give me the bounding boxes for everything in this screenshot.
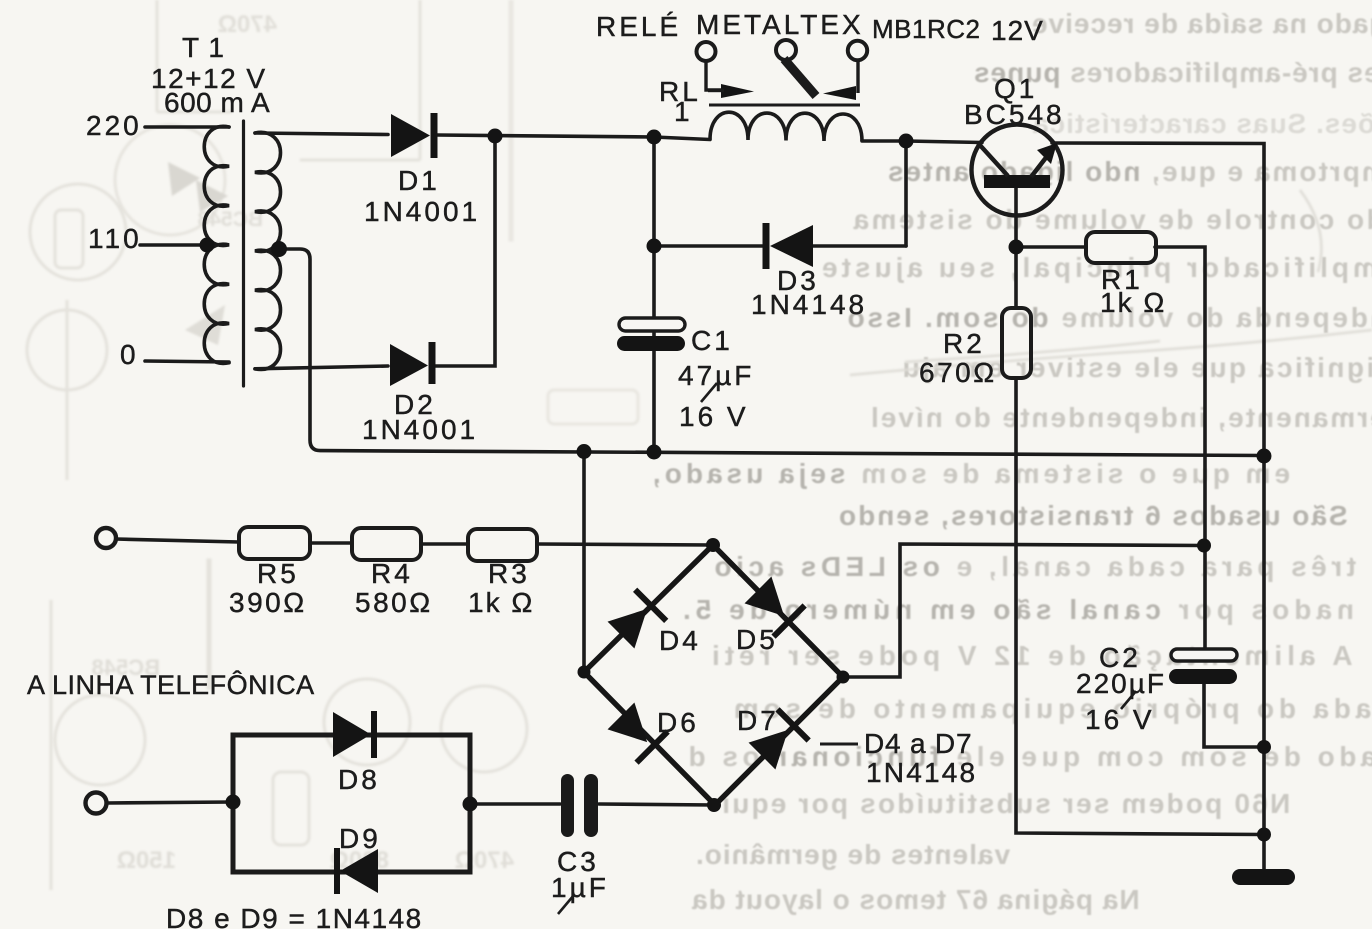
svg-text:1N4148: 1N4148: [866, 757, 977, 788]
svg-text:RELÉ: RELÉ: [596, 11, 681, 42]
node loop left: [226, 795, 241, 810]
wire R2 bottom to right rail: [1016, 378, 1264, 835]
node Q1 base: [1009, 240, 1024, 255]
relay coil: [710, 112, 862, 141]
svg-text:110: 110: [88, 223, 142, 254]
svg-text:R2: R2: [943, 328, 985, 359]
svg-text:0: 0: [120, 339, 139, 370]
node bridge output: [1197, 539, 1211, 553]
svg-text:D4 a D7: D4 a D7: [864, 728, 972, 759]
node D3 left: [647, 239, 662, 254]
relay contact circle 1: [697, 42, 716, 61]
svg-text:1N4148: 1N4148: [751, 289, 867, 320]
node center tap: [271, 241, 287, 257]
svg-text:D7: D7: [737, 705, 779, 736]
node bus C1: [647, 445, 662, 460]
svg-text:D8 e D9 = 1N4148: D8 e D9 = 1N4148: [166, 903, 423, 929]
secondary coil: [255, 132, 281, 369]
wire relay right node down to D3: [904, 141, 908, 246]
node loop right: [463, 797, 478, 812]
relay contact circle 2: [776, 40, 796, 60]
relay contact circle 3: [848, 41, 867, 60]
diode D4: [605, 590, 666, 651]
node bridge left: [578, 666, 591, 679]
svg-text:T 1: T 1: [182, 32, 225, 63]
relay arrow left head: [823, 86, 856, 100]
capacitor C3: [561, 774, 598, 837]
ghost bleed-through text layer: [1031, 8, 1372, 40]
diode D7: [746, 709, 808, 771]
wire Q1 emitter to right rail: [1052, 143, 1264, 456]
wire bridge + output: [843, 544, 1205, 677]
diode D8: [333, 712, 371, 757]
Q1 base bar: [984, 175, 1050, 188]
mu slash C2: [1121, 691, 1136, 709]
diode D3: [766, 223, 813, 269]
svg-text:1: 1: [674, 96, 693, 127]
svg-text:D6: D6: [657, 707, 699, 738]
wire R1 to right vertical: [1155, 247, 1205, 649]
wire bus to bridge left vertex: [582, 452, 586, 672]
svg-text:METALTEX: METALTEX: [696, 9, 864, 40]
node bus left: [577, 444, 592, 459]
wire 110 tap: [140, 243, 207, 247]
wire D2 cathode up to node: [433, 136, 495, 366]
node bridge right: [837, 671, 850, 684]
wire telephone input to R5: [116, 539, 239, 542]
svg-text:580Ω: 580Ω: [355, 587, 433, 618]
node R2 return: [1257, 828, 1271, 842]
wire R5 to R4: [310, 541, 352, 545]
wire C2 bottom: [1204, 684, 1264, 747]
svg-text:1µF: 1µF: [551, 872, 609, 903]
node left rail top: [647, 130, 662, 145]
capacitor C1: [617, 318, 685, 351]
bridge rectifier D4-D7: [584, 545, 843, 805]
diode D2: [390, 342, 432, 386]
svg-text:A LINHA TELEFÔNICA: A LINHA TELEFÔNICA: [27, 669, 315, 700]
svg-text:D9: D9: [339, 823, 381, 854]
capacitor C2: [1169, 649, 1237, 684]
svg-text:1N4001: 1N4001: [364, 196, 480, 227]
svg-text:D1: D1: [398, 165, 440, 196]
svg-text:BC548: BC548: [964, 99, 1065, 130]
wire D3 row: [654, 244, 906, 248]
wire 0 tap: [145, 361, 229, 362]
wire 220 tap: [145, 125, 229, 129]
wire base node to R1: [1016, 245, 1086, 249]
svg-text:R4: R4: [371, 558, 413, 589]
svg-text:1k Ω: 1k Ω: [468, 587, 534, 618]
wire R3 to bridge top: [537, 544, 713, 545]
wire D1 cathode to node: [437, 135, 710, 140]
callout line D4 a D7: [820, 743, 858, 746]
svg-text:47µF: 47µF: [678, 360, 754, 391]
svg-text:16 V: 16 V: [679, 401, 749, 432]
diode D1: [391, 113, 434, 158]
Q1 collector: [978, 143, 1008, 176]
node bridge bottom: [707, 798, 721, 812]
diode D5: [742, 574, 804, 636]
mu slash C3: [558, 895, 574, 914]
svg-text:R5: R5: [257, 558, 299, 589]
resistor R4: [352, 528, 421, 560]
svg-text:C1: C1: [691, 325, 733, 356]
resistor R5: [239, 527, 310, 559]
wire R2 top: [1014, 247, 1018, 308]
resistor R2: [1002, 308, 1031, 378]
node bus right: [1257, 449, 1272, 464]
resistor R3: [468, 529, 537, 561]
node C2 bottom: [1257, 740, 1271, 754]
node 110 tap: [200, 238, 215, 253]
transformer T1: [140, 121, 281, 386]
relay moving contact bar: [784, 59, 816, 96]
ground: [1240, 869, 1287, 885]
svg-text:12V: 12V: [991, 15, 1044, 46]
mu slash C1: [701, 383, 717, 402]
wire loop to C3: [470, 802, 560, 806]
relay RL1: [697, 40, 868, 141]
svg-text:16 V: 16 V: [1085, 704, 1155, 735]
resistor R1: [1086, 232, 1156, 263]
svg-text:D5: D5: [736, 624, 778, 655]
terminal circle upper: [96, 528, 116, 548]
diode D9: [340, 849, 378, 893]
svg-text:600 m A: 600 m A: [164, 87, 270, 118]
relay baseline: [709, 104, 860, 107]
svg-text:D4: D4: [659, 625, 701, 656]
bridge edges: [584, 545, 843, 805]
svg-text:670Ω: 670Ω: [919, 357, 997, 388]
diode D6: [605, 700, 667, 762]
svg-text:D8: D8: [338, 764, 380, 795]
svg-text:1k Ω: 1k Ω: [1100, 287, 1166, 318]
relay contact lead 1: [706, 61, 722, 90]
svg-text:1N4001: 1N4001: [362, 414, 478, 445]
diode D8 / D9 loop: [233, 711, 470, 894]
svg-text:MB1RC2: MB1RC2: [872, 14, 980, 44]
relay contact lead 3: [856, 60, 859, 93]
wire relay coil to Q1: [862, 141, 982, 143]
terminal circle lower: [86, 793, 107, 814]
core: [242, 121, 245, 386]
svg-text:220µF: 220µF: [1076, 668, 1166, 699]
primary coil: [204, 126, 229, 363]
wire right rail to ground: [1262, 456, 1266, 870]
svg-text:390Ω: 390Ω: [229, 587, 307, 618]
wire C3 to bridge bottom: [599, 804, 714, 805]
wire R4 to R3: [421, 542, 468, 546]
node bridge top: [706, 538, 720, 552]
node D1/D2: [488, 129, 503, 144]
svg-text:R3: R3: [488, 558, 530, 589]
wire left rail down: [652, 137, 656, 452]
wire center tap to ground bus: [279, 249, 1265, 456]
node relay right: [899, 134, 914, 149]
relay arrow right head: [721, 84, 754, 98]
wire secondary top to D1: [255, 133, 388, 135]
wire telephone input 2 to loop: [107, 802, 233, 803]
wire Q1 base down: [1014, 188, 1018, 247]
svg-text:220: 220: [86, 110, 142, 141]
wire secondary bottom to D2: [255, 366, 388, 369]
Q1 emitter: [1031, 155, 1048, 177]
transistor Q1: [972, 125, 1063, 216]
